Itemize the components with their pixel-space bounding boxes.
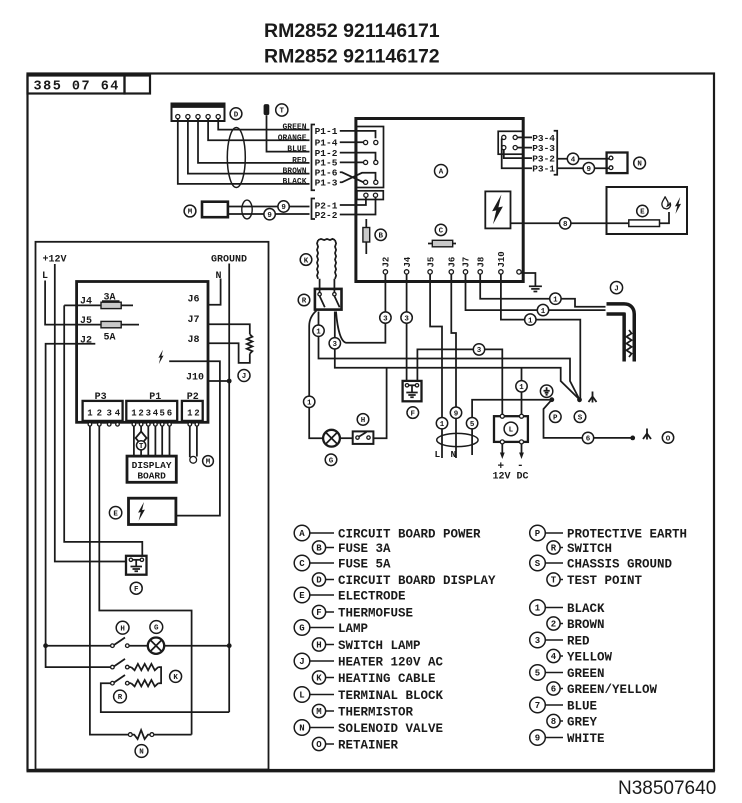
svg-text:6: 6	[551, 685, 556, 695]
svg-text:J6: J6	[188, 295, 200, 306]
svg-text:J8: J8	[188, 335, 200, 346]
svg-text:FUSE 3A: FUSE 3A	[338, 542, 391, 556]
svg-text:THERMISTOR: THERMISTOR	[338, 706, 414, 720]
svg-text:F: F	[316, 608, 321, 618]
svg-text:J7: J7	[188, 315, 200, 326]
svg-text:TEST POINT: TEST POINT	[567, 574, 643, 588]
svg-text:N: N	[637, 161, 642, 169]
svg-text:4: 4	[551, 652, 557, 662]
svg-text:3: 3	[404, 315, 409, 323]
svg-text:3: 3	[383, 315, 388, 323]
svg-text:1: 1	[528, 317, 533, 325]
svg-text:6: 6	[586, 436, 591, 444]
svg-text:H: H	[316, 641, 321, 651]
svg-text:2: 2	[138, 409, 143, 419]
svg-text:3: 3	[535, 636, 540, 646]
svg-text:2: 2	[97, 409, 102, 419]
svg-text:P: P	[535, 529, 541, 539]
svg-text:C: C	[299, 559, 305, 569]
svg-text:WHITE: WHITE	[567, 732, 605, 746]
svg-text:D: D	[316, 576, 322, 586]
svg-text:BLACK: BLACK	[282, 178, 306, 187]
svg-text:C: C	[439, 228, 444, 236]
svg-text:J: J	[614, 285, 619, 293]
svg-text:SWITCH LAMP: SWITCH LAMP	[338, 639, 421, 653]
svg-text:ELECTRODE: ELECTRODE	[338, 590, 406, 604]
svg-text:5: 5	[535, 669, 540, 679]
svg-text:L: L	[435, 449, 441, 460]
svg-text:1: 1	[440, 421, 445, 429]
svg-text:5A: 5A	[104, 333, 116, 344]
svg-text:N38507640: N38507640	[618, 778, 716, 799]
svg-text:J5: J5	[80, 316, 92, 327]
svg-text:1: 1	[187, 409, 193, 419]
svg-text:J5: J5	[426, 257, 436, 268]
svg-text:RED: RED	[292, 157, 307, 166]
svg-text:1: 1	[131, 409, 137, 419]
svg-text:T: T	[280, 108, 285, 116]
svg-text:B: B	[378, 233, 383, 241]
svg-text:DISPLAY: DISPLAY	[132, 460, 172, 471]
svg-text:G: G	[329, 458, 334, 466]
svg-text:M: M	[188, 209, 193, 217]
svg-text:O: O	[666, 435, 671, 443]
svg-text:-: -	[517, 460, 524, 472]
svg-text:3: 3	[146, 409, 151, 419]
svg-text:K: K	[173, 674, 178, 682]
svg-text:2: 2	[194, 409, 199, 419]
svg-text:P1-1: P1-1	[315, 126, 338, 137]
svg-text:1: 1	[553, 296, 558, 304]
svg-text:J6: J6	[448, 257, 458, 268]
svg-text:S: S	[535, 559, 541, 569]
svg-text:3: 3	[106, 409, 111, 419]
svg-text:THERMOFUSE: THERMOFUSE	[338, 607, 413, 621]
svg-text:P3-3: P3-3	[532, 143, 555, 154]
svg-text:PROTECTIVE EARTH: PROTECTIVE EARTH	[567, 528, 687, 542]
svg-text:N: N	[299, 724, 304, 734]
svg-text:L: L	[509, 427, 514, 435]
svg-text:R: R	[302, 298, 307, 306]
svg-text:RM2852 921146172: RM2852 921146172	[264, 46, 440, 68]
svg-text:CIRCUIT BOARD POWER: CIRCUIT BOARD POWER	[338, 528, 481, 542]
svg-text:K: K	[304, 257, 309, 265]
svg-text:8: 8	[551, 717, 556, 727]
svg-text:J10: J10	[186, 373, 204, 384]
svg-text:N: N	[451, 449, 457, 460]
svg-text:9: 9	[281, 204, 286, 212]
svg-text:A: A	[299, 529, 305, 539]
svg-text:RM2852 921146171: RM2852 921146171	[264, 20, 440, 42]
svg-text:H: H	[120, 625, 125, 633]
svg-text:SOLENOID VALVE: SOLENOID VALVE	[338, 722, 443, 736]
svg-text:GREEN: GREEN	[282, 123, 306, 132]
svg-text:2: 2	[551, 620, 556, 630]
svg-text:3A: 3A	[104, 293, 116, 304]
svg-text:L: L	[42, 271, 48, 282]
svg-text:BLACK: BLACK	[567, 602, 605, 616]
svg-text:H: H	[361, 417, 366, 425]
svg-text:BOARD: BOARD	[137, 471, 166, 482]
svg-text:P1-4: P1-4	[315, 138, 338, 149]
svg-text:S: S	[578, 414, 583, 422]
svg-text:E: E	[640, 209, 645, 217]
svg-text:+12V: +12V	[43, 255, 67, 266]
svg-text:J: J	[299, 657, 304, 667]
svg-text:TERMINAL BLOCK: TERMINAL BLOCK	[338, 689, 444, 703]
svg-text:9: 9	[267, 212, 272, 220]
svg-text:5: 5	[159, 409, 164, 419]
svg-text:9: 9	[535, 734, 540, 744]
svg-text:1: 1	[519, 384, 524, 392]
svg-text:T: T	[139, 443, 144, 451]
svg-text:BLUE: BLUE	[567, 700, 597, 714]
svg-text:J10: J10	[497, 251, 507, 267]
svg-text:4: 4	[571, 157, 576, 165]
svg-text:5: 5	[470, 421, 475, 429]
svg-text:R: R	[118, 694, 123, 702]
svg-text:O: O	[316, 740, 322, 750]
svg-text:9: 9	[587, 166, 592, 174]
svg-text:E: E	[299, 591, 305, 601]
svg-text:6: 6	[167, 409, 172, 419]
svg-text:J4: J4	[403, 256, 413, 267]
svg-text:CIRCUIT BOARD DISPLAY: CIRCUIT BOARD DISPLAY	[338, 574, 496, 588]
svg-text:BROWN: BROWN	[282, 167, 306, 176]
svg-text:FUSE 5A: FUSE 5A	[338, 558, 391, 572]
svg-text:L: L	[299, 691, 304, 701]
svg-text:12V DC: 12V DC	[493, 472, 529, 483]
svg-text:1: 1	[307, 400, 312, 408]
svg-text:T: T	[551, 576, 557, 586]
svg-text:8: 8	[563, 221, 568, 229]
svg-text:M: M	[206, 459, 211, 467]
svg-text:P2-2: P2-2	[315, 210, 338, 221]
svg-text:A: A	[439, 169, 444, 177]
svg-text:4: 4	[153, 409, 159, 419]
svg-text:P: P	[553, 414, 558, 422]
svg-text:HEATER 120V AC: HEATER 120V AC	[338, 656, 444, 670]
svg-text:G: G	[299, 624, 304, 634]
svg-text:CHASSIS GROUND: CHASSIS GROUND	[567, 558, 673, 572]
svg-text:SWITCH: SWITCH	[567, 542, 612, 556]
svg-text:J2: J2	[80, 336, 92, 347]
svg-text:1: 1	[535, 604, 541, 614]
svg-text:P1-3: P1-3	[315, 178, 338, 189]
svg-text:J8: J8	[476, 257, 486, 268]
svg-text:RETAINER: RETAINER	[338, 739, 399, 753]
svg-text:J2: J2	[382, 257, 392, 268]
svg-text:3: 3	[477, 347, 482, 355]
svg-text:GREY: GREY	[567, 716, 598, 730]
svg-text:BLUE: BLUE	[287, 145, 306, 154]
svg-text:RED: RED	[567, 635, 590, 649]
svg-text:GREEN/YELLOW: GREEN/YELLOW	[567, 683, 658, 697]
svg-text:GREEN: GREEN	[567, 667, 605, 681]
svg-text:4: 4	[115, 409, 121, 419]
svg-text:G: G	[154, 625, 159, 633]
svg-text:D: D	[234, 111, 239, 119]
svg-text:3: 3	[333, 341, 338, 349]
svg-text:HEATING CABLE: HEATING CABLE	[338, 672, 436, 686]
svg-text:J7: J7	[462, 257, 472, 268]
svg-text:9: 9	[454, 410, 459, 418]
svg-text:B: B	[316, 544, 322, 554]
svg-text:1: 1	[316, 328, 321, 336]
svg-text:K: K	[316, 674, 322, 684]
svg-text:7: 7	[535, 701, 540, 711]
svg-text:E: E	[113, 510, 118, 518]
svg-text:ORANGE: ORANGE	[278, 134, 307, 143]
svg-text:R: R	[551, 544, 557, 554]
svg-text:BROWN: BROWN	[567, 618, 605, 632]
svg-text:M: M	[316, 707, 321, 717]
svg-text:1: 1	[87, 409, 93, 419]
svg-text:F: F	[134, 586, 139, 594]
svg-text:N: N	[139, 749, 144, 757]
svg-text:F: F	[411, 410, 416, 418]
svg-text:1: 1	[541, 308, 546, 316]
svg-text:P3-1: P3-1	[532, 164, 555, 175]
svg-text:J: J	[242, 373, 247, 381]
svg-text:LAMP: LAMP	[338, 622, 368, 636]
svg-text:YELLOW: YELLOW	[567, 651, 613, 665]
svg-text:J4: J4	[80, 297, 92, 308]
svg-text:385 07 64: 385 07 64	[34, 80, 120, 95]
